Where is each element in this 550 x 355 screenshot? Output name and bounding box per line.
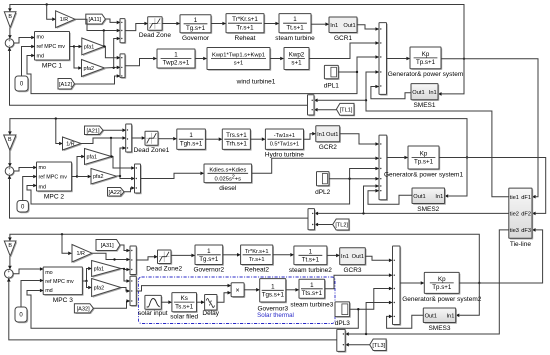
svg-text:Governor: Governor — [182, 35, 210, 42]
wire dead zone1 to hydro gov — [158, 137, 177, 141]
tag from A12 — [58, 79, 76, 91]
svg-text:1/R: 1/R — [60, 17, 68, 23]
svg-text:Dead Zone: Dead Zone — [139, 32, 172, 39]
svg-text:Tp.s+1: Tp.s+1 — [416, 59, 436, 66]
svg-text:pfa1: pfa1 — [84, 44, 95, 50]
block Governor2 — [193, 245, 224, 274]
sum block mux4 area2 — [135, 164, 142, 194]
svg-text:pfa2: pfa2 — [93, 174, 104, 180]
block steam turbine2 — [289, 246, 332, 274]
wire steam turbine2 to GCR3 — [327, 254, 340, 258]
wire TL3 to ACE3 — [345, 343, 370, 347]
svg-text:1/R: 1/R — [66, 142, 74, 148]
wire dPL1 to MPC1 md — [27, 54, 357, 94]
block GCR2 — [316, 126, 341, 151]
svg-text:Kp: Kp — [422, 51, 430, 58]
sum block add1 area1 — [379, 23, 388, 96]
svg-text:1: 1 — [189, 132, 193, 139]
svg-text:×: × — [236, 287, 240, 294]
subsystem box Solar thermal — [139, 277, 336, 324]
svg-text:B: B — [8, 14, 12, 20]
svg-text:0.025s2+s: 0.025s2+s — [215, 174, 242, 182]
wire dPL2 branch up — [350, 167, 380, 179]
svg-text:Kdies.s+Kdies: Kdies.s+Kdies — [209, 167, 246, 173]
svg-text:Tts.s+1: Tts.s+1 — [302, 290, 323, 297]
wire A12 to mux2 — [75, 74, 121, 84]
wire dF2 out — [439, 158, 546, 216]
gain pfa2 area2 — [91, 169, 118, 186]
block Dead Zone2 — [146, 250, 182, 273]
svg-text:Governor3: Governor3 — [257, 306, 288, 313]
svg-text:[A11]: [A11] — [88, 17, 101, 23]
wire dPL2 to MPC2 md — [27, 179, 350, 204]
svg-text:pfa2: pfa2 — [94, 286, 105, 292]
svg-text:1: 1 — [271, 283, 275, 290]
wire pfa2-2 to mux4 — [117, 175, 136, 181]
wire dPL3 to add3 — [350, 287, 393, 311]
gain B area2 — [4, 135, 18, 151]
svg-text:pfa2: pfa2 — [84, 66, 95, 72]
svg-text:steam turbine3: steam turbine3 — [290, 302, 333, 309]
svg-text:wind turbine1: wind turbine1 — [236, 79, 276, 86]
svg-text:In1: In1 — [317, 132, 325, 138]
block diesel — [204, 164, 253, 192]
wire add2 to generator2 — [387, 156, 408, 160]
block Dead Zone — [139, 17, 172, 40]
wire pfa1-2 up to mux3 — [110, 138, 113, 157]
wire pfa1 down to mux2 — [103, 45, 120, 59]
sum block mux1 area1 — [120, 19, 126, 44]
wire 1/R1 to mux1 — [75, 19, 121, 32]
wire const0 to MPC1 ref — [22, 45, 36, 76]
wire delay to product — [217, 291, 231, 302]
svg-text:B: B — [8, 137, 12, 143]
svg-text:MPC 1: MPC 1 — [42, 63, 62, 70]
wire tie1 to ACE1 — [314, 99, 366, 103]
svg-text:[A21]: [A21] — [86, 128, 100, 134]
wire tie1 feedback — [365, 70, 509, 197]
svg-text:Dead Zone1: Dead Zone1 — [134, 147, 170, 154]
wire pfa1-3 down to mux6 — [124, 269, 130, 283]
block wind tf2 — [207, 48, 271, 71]
svg-text:Generator& power system1: Generator& power system1 — [384, 172, 464, 179]
gain 1/R area3 — [72, 245, 93, 264]
svg-text:Solar thermal: Solar thermal — [257, 312, 294, 319]
block Governor — [180, 15, 212, 42]
svg-text:mo: mo — [37, 35, 45, 41]
wire mux4 to diesel — [141, 172, 205, 179]
svg-text:Tp.s+1: Tp.s+1 — [432, 284, 452, 291]
wire product to governor3 — [244, 288, 260, 292]
wire reheat to steam turbine — [264, 22, 279, 26]
svg-text:1: 1 — [310, 282, 314, 289]
wire add1 to generator1 — [387, 57, 411, 61]
svg-text:Tgs.s+1: Tgs.s+1 — [262, 292, 285, 299]
svg-text:Tg.s+1: Tg.s+1 — [186, 25, 206, 32]
wire B3 to sum3 — [8, 256, 12, 270]
svg-text:Tt.s+1: Tt.s+1 — [302, 257, 320, 264]
sum block mux5 area3 — [130, 246, 138, 276]
wire steam turbine to GCR1 — [311, 22, 329, 26]
tag from A22 — [108, 188, 126, 198]
svg-text:Tt.s+1: Tt.s+1 — [286, 24, 304, 31]
svg-text:GCR1: GCR1 — [334, 35, 352, 42]
svg-text:Kp: Kp — [438, 276, 446, 283]
wire GCR3 to add3 — [365, 256, 392, 262]
wire governor to reheat — [211, 22, 226, 26]
svg-text:In1: In1 — [429, 90, 437, 96]
wire pfa1-2 down to mux4 — [110, 155, 135, 170]
wire SMES1 to add1 — [371, 85, 411, 99]
sum block mux2 area1 — [120, 54, 126, 79]
svg-text:ref MPC mv: ref MPC mv — [39, 175, 68, 181]
wire tie2 to add2 — [364, 184, 380, 213]
block Governor3 — [257, 279, 288, 313]
gain B area1 — [4, 12, 17, 29]
svg-text:1: 1 — [207, 248, 211, 255]
block dPL1 — [324, 65, 340, 89]
wire const0 to MPC3 ref — [21, 279, 44, 307]
svg-text:B: B — [8, 243, 12, 249]
svg-text:[TL2]: [TL2] — [335, 223, 348, 229]
wire MPC1 mv to pfa1 — [74, 45, 82, 49]
block wind tf3 — [284, 48, 310, 71]
svg-text:1: 1 — [293, 16, 297, 23]
svg-text:Trs.s+1: Trs.s+1 — [226, 132, 247, 139]
block hydro transient — [222, 129, 251, 151]
svg-text:Kwp2: Kwp2 — [289, 52, 305, 59]
wire dF2 to SMES2 — [444, 158, 467, 198]
wire MPC1 mv to pfa1/pfa2 — [70, 45, 83, 70]
tag from A31 — [96, 240, 121, 252]
svg-text:pfa1: pfa1 — [87, 155, 98, 161]
wire mux3 to dead zone1 — [132, 136, 146, 140]
svg-text:0.5*Tw1s+1: 0.5*Tw1s+1 — [270, 141, 299, 147]
svg-text:In1: In1 — [341, 254, 349, 260]
svg-text:Dead Zone2: Dead Zone2 — [146, 266, 182, 273]
svg-text:Delay: Delay — [202, 310, 219, 317]
svg-text:Out1: Out1 — [326, 132, 338, 138]
wire sum1 to MPC1 mo — [14, 36, 35, 43]
wire dF2 top feedback — [8, 117, 468, 158]
svg-text:GCR3: GCR3 — [343, 267, 361, 274]
block Hydro turbine — [265, 129, 305, 159]
svg-text:Out1: Out1 — [412, 90, 424, 96]
gain pfa1 area3 — [92, 261, 123, 278]
label wind turbine1 — [236, 79, 276, 86]
svg-text:[A22]: [A22] — [108, 190, 122, 196]
wire SMES3 to add3 — [387, 315, 424, 329]
tag from A11 — [86, 14, 107, 25]
label Solar thermal — [257, 312, 294, 319]
sum block ACE sum3 — [337, 329, 347, 352]
wire dPL1 out — [338, 55, 379, 73]
svg-text:solar input: solar input — [138, 310, 168, 317]
wire TL2 to ACE2 — [314, 223, 332, 227]
svg-text:Out1: Out1 — [413, 194, 425, 200]
wire A31 to mux5 — [120, 245, 130, 252]
wire A21 to mux3 — [103, 128, 126, 132]
svg-text:Tp.s+1: Tp.s+1 — [414, 159, 434, 166]
wire dF3 to SMES3 — [456, 283, 480, 317]
wire ACE3 to sum3 — [7, 278, 337, 340]
wire dF1 out — [441, 59, 538, 199]
wire dead zone to governor — [162, 22, 180, 26]
block SMES1 — [411, 84, 439, 110]
gain pfa2 area3 — [92, 279, 123, 298]
block Reheat2 — [241, 245, 274, 274]
wire wind to add1 — [309, 41, 379, 58]
wire sum3 to MPC3 mo — [13, 267, 44, 274]
wire dead zone2 to governor2 — [171, 254, 195, 258]
wire ACE2 to sum2 — [8, 175, 308, 218]
wire tie2 feedback — [314, 212, 509, 216]
wire dF3 top feedback — [8, 233, 480, 284]
svg-text:[A31]: [A31] — [101, 243, 115, 249]
wire dF1 to SMES1 — [438, 59, 464, 96]
svg-text:steam turbine2: steam turbine2 — [289, 267, 332, 274]
block product — [231, 283, 245, 298]
wire solar field to delay — [197, 300, 205, 304]
svg-text:Reheat2: Reheat2 — [244, 267, 269, 274]
svg-text:Reheat: Reheat — [235, 35, 256, 42]
wire A11 to mux1 — [105, 19, 120, 24]
svg-text:mo: mo — [45, 270, 53, 276]
tag from TL3 — [370, 339, 388, 352]
wire wind tf1 to tf2 — [195, 57, 207, 61]
block generator power system2 — [402, 272, 482, 302]
wire governor2 to reheat2 — [223, 253, 241, 257]
block SMES3 — [423, 308, 457, 332]
block dPL2 — [315, 172, 331, 197]
wire pfa2 to mux2 — [105, 66, 121, 70]
svg-text:MPC 2: MPC 2 — [44, 194, 64, 201]
svg-text:Out1: Out1 — [425, 313, 437, 319]
svg-text:md: md — [39, 184, 47, 190]
wire A22 to mux4 — [124, 186, 135, 192]
wire dF3 to 1/R3 — [62, 234, 72, 255]
wire mux1 to dead zone — [125, 22, 148, 31]
svg-text:Governor2: Governor2 — [193, 267, 224, 274]
svg-text:Generator& power system2: Generator& power system2 — [402, 296, 482, 303]
wire 1/R3 to mux5 — [92, 253, 130, 261]
wire ACE1 to sum1 — [8, 47, 308, 105]
wire pfa2-3 to mux6 — [121, 288, 130, 293]
wire mux5 to dead zone2 — [136, 255, 158, 260]
block Dead Zone1 — [134, 131, 170, 154]
svg-text:steam turbine: steam turbine — [275, 35, 315, 42]
wire pfa1-3 to mux5 — [121, 268, 130, 272]
svg-text:GCR2: GCR2 — [319, 144, 337, 151]
wire TL1 to ACE1 — [314, 108, 337, 112]
wire dPL2 to add2 — [329, 177, 379, 181]
wire pfa1 up to mux1 — [103, 31, 106, 47]
svg-text:Tg.s+1: Tg.s+1 — [199, 256, 219, 263]
svg-text:dPL3: dPL3 — [335, 320, 351, 327]
svg-text:1/R: 1/R — [77, 251, 85, 257]
svg-text:Trh.s+1: Trh.s+1 — [226, 140, 247, 147]
block steam turbine — [275, 14, 315, 42]
svg-text:tie2: tie2 — [510, 212, 519, 218]
svg-text:Twp2.s+1: Twp2.s+1 — [163, 60, 190, 67]
gain pfa2 area1 — [82, 60, 106, 78]
block GCR1 — [329, 17, 358, 42]
svg-text:dPL1: dPL1 — [324, 82, 340, 89]
wire SMES2 to add2 — [368, 189, 412, 204]
wire solar input to solar field — [161, 300, 172, 304]
svg-text:Ts.s+1: Ts.s+1 — [175, 303, 194, 310]
block dPL3 — [335, 302, 351, 327]
svg-text:tie1: tie1 — [510, 195, 519, 201]
block generator power system1 — [384, 146, 464, 179]
svg-text:Out1: Out1 — [352, 254, 364, 260]
svg-text:Generator& power system: Generator& power system — [388, 71, 464, 78]
svg-text:dF1: dF1 — [521, 195, 531, 201]
tag from TL1 — [336, 103, 355, 116]
wire pfa2 up to mux1 — [114, 37, 121, 68]
svg-text:Ks: Ks — [181, 295, 188, 302]
svg-text:[TL1]: [TL1] — [340, 107, 353, 113]
block constant 0 area3 — [15, 307, 28, 323]
wire wind tf2 to tf3 — [270, 57, 284, 61]
wire tie3 feedback — [345, 230, 509, 336]
svg-text:MPC 3: MPC 3 — [53, 297, 73, 304]
wire mux6 to product — [136, 284, 231, 291]
wire steam turbine3 to add3 — [325, 273, 393, 288]
wire MPC2 mv to pfa2 — [77, 175, 92, 179]
tag from A32 — [74, 304, 94, 314]
block MPC 3 — [43, 267, 83, 304]
block solar filed — [170, 293, 198, 321]
block MPC 2 — [37, 162, 73, 201]
block steam turbine3 — [290, 279, 333, 308]
gain 1/R area2 — [63, 137, 83, 151]
wire MPC2 mv out — [72, 155, 85, 178]
sum junction sum1 — [5, 38, 15, 48]
gain 1/R area1 — [56, 11, 77, 29]
svg-text:Out1: Out1 — [343, 23, 355, 29]
svg-text:-Tw1s+1: -Tw1s+1 — [274, 133, 295, 139]
block Tie-line — [509, 188, 533, 248]
svg-text:md: md — [45, 288, 53, 294]
sum block add3 area3 — [393, 246, 402, 326]
block solar input — [138, 295, 168, 317]
svg-text:tie3: tie3 — [510, 228, 519, 234]
wire GCR2 to add2 — [340, 134, 380, 146]
svg-text:[A12]: [A12] — [59, 82, 73, 88]
gain pfa1 area2 — [85, 149, 113, 166]
wire governor3 to steam turbine3 — [286, 288, 299, 292]
svg-text:dPL2: dPL2 — [315, 189, 331, 196]
sum block add2 area2 — [379, 135, 388, 201]
sum junction sum2 — [5, 166, 15, 176]
wire reheat2 to steam turbine2 — [273, 253, 294, 257]
gain pfa1 area1 — [82, 38, 106, 56]
svg-text:1: 1 — [174, 52, 178, 59]
block constant 0 area2 — [17, 201, 30, 214]
sum junction sum3 — [5, 269, 15, 279]
tag from TL2 — [333, 219, 350, 231]
svg-text:1: 1 — [309, 248, 313, 255]
svg-text:Hydro turbine: Hydro turbine — [265, 152, 304, 159]
block hydro governor — [177, 129, 207, 151]
wire pfa2-2 up to mux3 — [120, 146, 126, 176]
wire A32 to mux6 — [93, 299, 130, 308]
sum block ACE sum2 — [308, 209, 316, 231]
svg-text:s+1: s+1 — [291, 60, 302, 67]
block SMES2 — [412, 188, 446, 213]
block generator power system — [388, 47, 464, 78]
svg-text:SMES2: SMES2 — [417, 206, 439, 213]
wire MPC3 mv out — [82, 267, 92, 282]
sum block mux6 area3 — [130, 276, 138, 307]
wire GCR1 to add1 — [357, 25, 379, 31]
block constant 0 area1 — [15, 76, 29, 92]
wire transient to hydro turbine — [250, 137, 265, 141]
svg-text:[TL3]: [TL3] — [372, 343, 385, 349]
svg-text:Tie-line: Tie-line — [510, 241, 531, 248]
svg-text:md: md — [37, 54, 45, 60]
wire dF1 to 1/R gain — [47, 5, 56, 22]
svg-text:Kp: Kp — [420, 151, 428, 158]
svg-text:dF3: dF3 — [521, 228, 531, 234]
svg-text:mo: mo — [39, 165, 47, 171]
wire dF2 to 1/R2 — [56, 119, 63, 146]
svg-text:[A32]: [A32] — [77, 306, 91, 312]
svg-text:In1: In1 — [446, 313, 454, 319]
svg-text:Tr.s+1: Tr.s+1 — [249, 257, 265, 263]
svg-text:In1: In1 — [330, 23, 338, 29]
svg-text:Tr.s+1: Tr.s+1 — [236, 24, 254, 31]
svg-text:pfa1: pfa1 — [94, 267, 105, 273]
svg-text:ref MPC mv: ref MPC mv — [45, 279, 74, 285]
svg-text:Tr*Kr.s+1: Tr*Kr.s+1 — [232, 16, 258, 23]
svg-text:Kwp1*Twp1.s+Kwp1: Kwp1*Twp1.s+Kwp1 — [212, 53, 265, 59]
wire dF1 top feedback — [8, 3, 465, 60]
wire 1/R2 to mux3 — [81, 136, 126, 143]
wire MPC3 mv to pfa2 — [87, 281, 93, 289]
svg-text:diesel: diesel — [219, 185, 237, 192]
block Delay — [202, 295, 219, 318]
block MPC 1 — [35, 32, 71, 70]
wire tie3 to add3 — [366, 301, 393, 334]
svg-text:s+1: s+1 — [234, 61, 244, 67]
block Reheat — [226, 14, 265, 42]
wire dF3 out — [459, 228, 542, 283]
svg-text:Tgh.s+1: Tgh.s+1 — [180, 140, 203, 147]
svg-text:1: 1 — [194, 17, 198, 24]
wire add3 to generator3 — [400, 281, 425, 285]
svg-text:In1: In1 — [435, 194, 443, 200]
wire hydro turbine to GCR2 — [304, 132, 317, 139]
wire hydro gov to transient — [205, 137, 222, 141]
svg-text:ref MPC mv: ref MPC mv — [37, 44, 66, 50]
wire const0 to MPC2 ref — [23, 175, 37, 201]
svg-text:solar filed: solar filed — [170, 314, 198, 321]
svg-text:SMES1: SMES1 — [413, 102, 435, 109]
wire B1 to sum1 — [8, 28, 12, 39]
sum block mux3 area2 — [126, 124, 133, 153]
block wind tf1 — [157, 49, 196, 69]
wire B2 to sum2 — [8, 150, 12, 167]
svg-text:SMES3: SMES3 — [428, 325, 450, 332]
wire dPL3 to MPC3 md — [27, 289, 358, 329]
wire sum2 to MPC2 mo — [14, 166, 37, 171]
gain B area3 — [4, 241, 17, 257]
svg-text:Tr*Kr.s+1: Tr*Kr.s+1 — [245, 249, 269, 255]
tag from A21 — [85, 126, 105, 136]
block GCR3 — [340, 248, 367, 274]
